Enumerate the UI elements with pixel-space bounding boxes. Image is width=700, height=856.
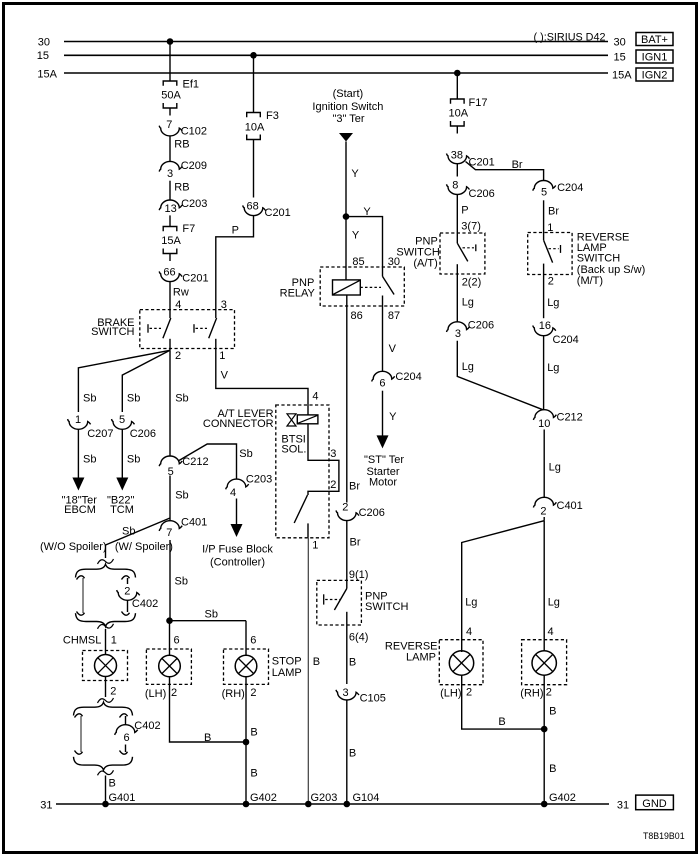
- svg-text:C212: C212: [182, 456, 208, 468]
- svg-text:15: 15: [37, 50, 49, 62]
- svg-text:Lg: Lg: [462, 361, 474, 373]
- svg-text:1: 1: [75, 414, 81, 426]
- node on bus 15A: [454, 70, 461, 77]
- lamp reverse LH: [439, 640, 483, 685]
- svg-text:IGN2: IGN2: [642, 70, 668, 82]
- svg-text:50A: 50A: [161, 90, 181, 102]
- connector C204 pin 5: [533, 180, 556, 190]
- wire B to G401: [105, 776, 107, 805]
- svg-text:86: 86: [351, 310, 363, 322]
- svg-text:2: 2: [466, 687, 472, 699]
- connector C203 pin 13: [159, 200, 182, 210]
- lamp CHMSL: [83, 651, 128, 681]
- wire to RH reverse: [543, 521, 545, 652]
- svg-text:7: 7: [166, 119, 172, 131]
- wire B RH stop down: [245, 677, 247, 742]
- svg-text:68: 68: [246, 200, 258, 212]
- svg-text:GND: GND: [642, 798, 667, 810]
- svg-text:Lg: Lg: [465, 597, 477, 609]
- wire break squiggle 2: [98, 624, 114, 629]
- svg-text:EBCM: EBCM: [64, 504, 96, 516]
- hook left top 1: [77, 576, 85, 580]
- svg-text:RB: RB: [174, 139, 189, 151]
- ground G401: [102, 801, 109, 808]
- terminal box BAT+: [636, 33, 673, 46]
- svg-text:Ef1: Ef1: [183, 79, 200, 91]
- wire V brake pin1 to ATL pin4: [216, 349, 308, 406]
- svg-text:4: 4: [466, 626, 472, 638]
- svg-text:C204: C204: [557, 182, 583, 194]
- svg-text:15A: 15A: [37, 69, 57, 81]
- wire bus15A to F17: [456, 73, 458, 99]
- svg-text:B: B: [204, 732, 211, 744]
- svg-text:B: B: [313, 656, 320, 668]
- lamp stop RH: [224, 649, 269, 684]
- svg-text:2: 2: [330, 479, 336, 491]
- svg-text:BAT+: BAT+: [641, 34, 668, 46]
- svg-text:Ignition Switch: Ignition Switch: [312, 101, 383, 113]
- PNP switch A/T contact: [456, 233, 458, 243]
- svg-text:C402: C402: [134, 720, 160, 732]
- wire BTSI jog pins 3-2: [308, 424, 339, 495]
- wire Lg C212-10 to C401-2: [543, 430, 545, 498]
- svg-text:F7: F7: [182, 223, 195, 235]
- wire C401-7 down to node: [169, 540, 171, 621]
- wire right branch bottom 1: [127, 600, 129, 612]
- svg-text:(M/T): (M/T): [577, 275, 603, 287]
- svg-text:C401: C401: [557, 500, 583, 512]
- svg-text:15A: 15A: [612, 70, 632, 82]
- svg-text:(W/O Spoiler): (W/O Spoiler): [40, 541, 107, 553]
- svg-text:C204: C204: [395, 371, 421, 383]
- wire Sb C206 to TCM: [121, 429, 123, 478]
- svg-text:1: 1: [111, 635, 117, 647]
- svg-text:RB: RB: [174, 181, 189, 193]
- svg-text:31: 31: [40, 799, 52, 811]
- brake switch left contact: [169, 310, 171, 318]
- connector C206 pin 3: [447, 322, 470, 332]
- svg-text:G203: G203: [311, 792, 338, 804]
- svg-text:3: 3: [342, 687, 348, 699]
- svg-text:C401: C401: [181, 516, 207, 528]
- wire bus15 to F3: [253, 55, 255, 112]
- wire to CHMSL: [105, 629, 107, 655]
- wire Sb spoiler diagonal: [106, 518, 171, 545]
- wire Sb branch to C203: [179, 444, 237, 479]
- svg-text:C206: C206: [359, 507, 385, 519]
- ground G104: [344, 801, 351, 808]
- svg-text:6: 6: [250, 635, 256, 647]
- connector C401 pin 2: [533, 497, 556, 507]
- svg-text:3: 3: [167, 168, 173, 180]
- BTSI switch blade: [294, 495, 307, 523]
- svg-text:G104: G104: [353, 792, 380, 804]
- wire Rw to brake switch: [169, 282, 171, 310]
- connector C212 pin 5: [159, 456, 182, 466]
- svg-text:Br: Br: [349, 481, 360, 493]
- svg-text:SOL.: SOL.: [281, 443, 306, 455]
- connector C402 pin 6: [115, 725, 138, 735]
- wire Y ignition down: [345, 142, 347, 217]
- svg-text:B: B: [349, 657, 356, 669]
- wire B LH stop to junction: [170, 677, 247, 742]
- svg-text:"ST" Ter: "ST" Ter: [364, 454, 404, 466]
- BTSI valve symbol: [287, 414, 296, 420]
- svg-text:C212: C212: [557, 412, 583, 424]
- svg-text:(RH): (RH): [520, 687, 543, 699]
- svg-text:Rw: Rw: [173, 286, 189, 298]
- svg-text:CONNECTOR: CONNECTOR: [203, 418, 274, 430]
- wire node to LH stop lamp: [169, 621, 171, 656]
- svg-text:C402: C402: [132, 598, 158, 610]
- svg-text:6: 6: [174, 635, 180, 647]
- svg-text:Br: Br: [512, 159, 523, 171]
- svg-text:7: 7: [166, 527, 172, 539]
- bus 15A wire: [64, 72, 608, 74]
- fuse F17: [451, 99, 465, 104]
- svg-text:C206: C206: [468, 319, 494, 331]
- svg-text:C206: C206: [469, 188, 495, 200]
- wire B junction to G402: [543, 729, 545, 804]
- wire B BTSI to G203: [307, 538, 309, 804]
- wire Sb to RH stop lamp: [170, 620, 247, 622]
- lamp stop LH: [146, 649, 191, 684]
- wire into brace 1: [105, 545, 107, 558]
- wire C201-38 to C206-8: [456, 164, 458, 177]
- wire relay86 down: [346, 295, 348, 503]
- node on bus 15: [250, 52, 257, 59]
- relay switch: [382, 267, 384, 276]
- hook right bottom 2: [120, 751, 128, 755]
- svg-text:LAMP: LAMP: [406, 652, 436, 664]
- svg-text:10: 10: [538, 418, 550, 430]
- BTSI switch contact: [307, 523, 309, 537]
- svg-text:(W/ Spoiler): (W/ Spoiler): [115, 541, 173, 553]
- brake switch right actuator: [193, 324, 195, 333]
- svg-text:Sb: Sb: [127, 392, 140, 404]
- svg-text:Y: Y: [351, 168, 359, 180]
- node stop lamp B junction: [243, 739, 250, 746]
- svg-text:2: 2: [124, 586, 130, 598]
- hook right bottom 1: [122, 612, 130, 616]
- svg-text:15A: 15A: [161, 235, 181, 247]
- relay coil-switch link: [360, 286, 381, 288]
- svg-text:G402: G402: [250, 792, 277, 804]
- connector C212 pin 10: [533, 410, 556, 420]
- svg-text:C105: C105: [360, 692, 386, 704]
- node stop lamp branch: [166, 617, 173, 624]
- wire P C201-68 to brake switch pin 3: [216, 216, 254, 310]
- bus 30 wire: [64, 41, 608, 43]
- svg-text:2(2): 2(2): [462, 277, 482, 289]
- brake switch right contact: [215, 310, 217, 318]
- svg-text:13: 13: [164, 203, 176, 215]
- BTSI solenoid coil: [307, 405, 309, 415]
- svg-text:C102: C102: [181, 126, 207, 138]
- svg-text:Sb: Sb: [83, 392, 96, 404]
- svg-text:V: V: [389, 343, 397, 355]
- svg-text:4: 4: [230, 487, 236, 499]
- wire Lg PNP A/T to C206-3: [456, 274, 458, 322]
- node on bus 30: [167, 38, 174, 45]
- bus 15 wire: [64, 54, 608, 56]
- svg-text:(RH): (RH): [222, 688, 245, 700]
- svg-text:87: 87: [388, 310, 400, 322]
- svg-text:C203: C203: [246, 473, 272, 485]
- svg-text:2: 2: [250, 687, 256, 699]
- svg-text:LAMP: LAMP: [272, 667, 302, 679]
- svg-text:B: B: [250, 727, 257, 739]
- PNP switch M/T contact: [346, 580, 348, 588]
- svg-text:C206: C206: [130, 428, 156, 440]
- svg-text:30: 30: [614, 36, 626, 48]
- wire brake pin2 to C212: [169, 350, 171, 456]
- svg-text:B: B: [549, 763, 556, 775]
- svg-text:2: 2: [342, 502, 348, 514]
- brace top 2: [74, 702, 133, 715]
- svg-text:Y: Y: [352, 230, 360, 242]
- wire Y node to relay 85: [345, 217, 347, 280]
- svg-text:Lg: Lg: [462, 296, 474, 308]
- wire RB C209-C203: [169, 181, 171, 200]
- svg-text:Motor: Motor: [369, 477, 397, 489]
- svg-text:4: 4: [312, 391, 318, 403]
- wire left branch 1: [82, 578, 84, 613]
- svg-text:(LH): (LH): [440, 687, 461, 699]
- svg-text:C203: C203: [181, 198, 207, 210]
- PNP switch A/T box: [440, 233, 485, 274]
- PNP switch A/T actuator: [475, 244, 477, 251]
- arrow to starter motor: [377, 435, 389, 448]
- A/T lever connector box: [276, 405, 329, 538]
- svg-text:V: V: [221, 369, 229, 381]
- svg-text:CHMSL: CHMSL: [63, 634, 102, 646]
- svg-text:5: 5: [119, 414, 125, 426]
- wire P C206-8 to PNP A/T: [456, 195, 458, 234]
- wire B C105 to G104: [346, 700, 348, 804]
- svg-text:Sb: Sb: [239, 448, 252, 460]
- svg-text:C209: C209: [181, 160, 207, 172]
- connector C209 pin 3: [159, 161, 182, 171]
- svg-text:5: 5: [541, 186, 547, 198]
- svg-text:G402: G402: [549, 792, 576, 804]
- connector C203 pin 4: [226, 479, 249, 489]
- svg-text:Lg: Lg: [548, 597, 560, 609]
- svg-text:STOP: STOP: [272, 655, 302, 667]
- wire right branch top 1: [127, 578, 129, 584]
- brake switch left actuator: [147, 324, 149, 333]
- node ignition branch: [343, 213, 350, 220]
- wire right branch bottom 2: [125, 745, 127, 753]
- reverse lamp switch box: [528, 233, 572, 275]
- wire F3 to C201-68: [253, 147, 255, 198]
- fuse F3: [247, 113, 261, 118]
- svg-text:6(4): 6(4): [349, 632, 369, 644]
- wire V relay87 to C204: [382, 306, 384, 371]
- svg-text:9(1): 9(1): [349, 569, 369, 581]
- hook left top 2: [75, 714, 83, 718]
- hook right top 2: [120, 714, 128, 718]
- svg-text:Sb: Sb: [175, 489, 188, 501]
- svg-text:2: 2: [540, 506, 546, 518]
- wire RB C102-C209: [169, 136, 171, 162]
- hook left bottom 1: [77, 612, 85, 616]
- lamp reverse RH: [522, 640, 567, 685]
- svg-text:1: 1: [219, 350, 225, 362]
- svg-text:3(7): 3(7): [461, 220, 481, 232]
- svg-text:Sb: Sb: [175, 576, 188, 588]
- svg-text:SWITCH: SWITCH: [577, 253, 620, 265]
- relay coil: [333, 280, 361, 295]
- svg-text:SWITCH: SWITCH: [91, 326, 134, 338]
- ignition feed arrow: [339, 133, 353, 142]
- svg-text:C207: C207: [87, 428, 113, 440]
- wire Y branch to relay 30: [346, 217, 383, 267]
- wire Br C206-2 to PNP switch: [346, 521, 348, 581]
- wire B PNP to C105: [346, 625, 348, 684]
- svg-text:IGN1: IGN1: [642, 52, 668, 64]
- reverse lamp switch contact: [543, 233, 545, 241]
- svg-text:F3: F3: [266, 110, 279, 122]
- svg-text:16: 16: [539, 320, 551, 332]
- wire Br C204-5 to revsw: [543, 200, 545, 232]
- svg-text:Sb: Sb: [127, 454, 140, 466]
- bus 31 wire: [56, 803, 609, 805]
- wire break squiggle 1: [98, 559, 114, 564]
- svg-text:F17: F17: [469, 97, 488, 109]
- svg-text:Sb: Sb: [83, 454, 96, 466]
- hook right top 1: [122, 576, 130, 580]
- svg-text:Sb: Sb: [122, 526, 135, 538]
- brace bottom 1: [76, 613, 136, 626]
- svg-text:B: B: [498, 716, 505, 728]
- svg-text:Y: Y: [389, 411, 397, 423]
- terminal box GND: [636, 795, 674, 810]
- wire Sb C207 to EBCM: [77, 429, 79, 478]
- wire Lg C206-3 diagonal to C212-10: [457, 341, 543, 410]
- arrow to EBCM: [72, 478, 84, 491]
- svg-text:Lg: Lg: [549, 462, 561, 474]
- relay U1 box: [320, 267, 404, 306]
- wire CHMSL to brace 2: [105, 677, 107, 698]
- svg-text:1: 1: [312, 540, 318, 552]
- PNP switch M/T actuator: [323, 594, 325, 604]
- svg-text:3: 3: [330, 448, 336, 460]
- svg-text:2: 2: [548, 275, 554, 287]
- terminal box IGN1: [636, 50, 673, 63]
- svg-text:(Controller): (Controller): [210, 557, 265, 569]
- PNP switch M/T box: [317, 580, 362, 625]
- wire left branch 2: [80, 716, 82, 752]
- svg-text:I/P Fuse Block: I/P Fuse Block: [202, 543, 273, 555]
- svg-text:B: B: [250, 767, 257, 779]
- svg-text:38: 38: [451, 150, 463, 162]
- svg-text:10A: 10A: [245, 122, 265, 134]
- svg-text:2: 2: [546, 687, 552, 699]
- wire Sb C212 to C401: [169, 476, 171, 521]
- svg-text:T8B19B01: T8B19B01: [643, 831, 685, 841]
- ground G203: [305, 801, 312, 808]
- wire break squiggle 4: [98, 770, 114, 775]
- wire B junction to G402: [245, 742, 247, 804]
- svg-text:6: 6: [379, 378, 385, 390]
- arrow to TCM: [116, 478, 128, 491]
- svg-text:SWITCH: SWITCH: [396, 246, 439, 258]
- wire branch to C206: [122, 350, 170, 412]
- fuse Ef1: [163, 81, 177, 86]
- svg-text:31: 31: [617, 799, 629, 811]
- svg-text:Br: Br: [548, 205, 559, 217]
- svg-text:Lg: Lg: [547, 297, 559, 309]
- svg-text:4: 4: [548, 626, 554, 638]
- wire C203 to F7: [169, 215, 171, 226]
- svg-text:P: P: [461, 205, 468, 217]
- svg-text:(LH): (LH): [145, 688, 166, 700]
- wire break squiggle 3: [98, 698, 114, 703]
- wire B RH reverse down: [543, 675, 545, 729]
- wire Y to starter arrow: [382, 391, 384, 436]
- ground G402 left: [243, 801, 250, 808]
- svg-text:Y: Y: [363, 206, 371, 218]
- wire RH drop: [245, 621, 247, 656]
- svg-text:2: 2: [110, 685, 116, 697]
- connector C204 pin 6: [372, 371, 395, 381]
- hook left bottom 2: [75, 751, 83, 755]
- node reverse B junction: [541, 726, 548, 733]
- svg-text:B: B: [349, 748, 356, 760]
- svg-text:(A/T): (A/T): [413, 258, 437, 270]
- svg-text:10A: 10A: [449, 107, 469, 119]
- svg-text:3: 3: [455, 328, 461, 340]
- wire C401-2 stub: [543, 517, 545, 521]
- wire B LH reverse to junction: [462, 675, 545, 729]
- svg-text:30: 30: [38, 36, 50, 48]
- brace top 1: [76, 564, 136, 577]
- wire Br branch to C204-5: [466, 162, 544, 181]
- reverse lamp switch actuator: [560, 245, 562, 253]
- svg-text:66: 66: [163, 267, 175, 279]
- svg-text:8: 8: [452, 180, 458, 192]
- svg-text:C201: C201: [182, 272, 208, 284]
- svg-text:85: 85: [352, 256, 364, 268]
- svg-text:B: B: [109, 778, 116, 790]
- svg-text:C201: C201: [265, 207, 291, 219]
- svg-text:SWITCH: SWITCH: [365, 601, 408, 613]
- svg-text:6: 6: [123, 732, 129, 744]
- svg-text:Sb: Sb: [205, 609, 218, 621]
- svg-text:Sb: Sb: [175, 392, 188, 404]
- fuse F7: [163, 227, 177, 232]
- brace bottom 2: [74, 757, 133, 770]
- svg-text:RELAY: RELAY: [280, 287, 316, 299]
- wire Lg revsw to C204-16: [543, 275, 545, 319]
- wire bus30 to Ef1: [169, 42, 171, 81]
- svg-text:TCM: TCM: [110, 504, 134, 516]
- svg-text:15: 15: [614, 52, 626, 64]
- brake switch box: [140, 310, 235, 349]
- svg-text:B: B: [549, 705, 556, 717]
- svg-text:G401: G401: [109, 792, 136, 804]
- connector C401 pin 7: [159, 521, 182, 531]
- ground G402 right: [541, 801, 548, 808]
- arrow to I/P fuse block: [236, 499, 238, 525]
- wire diagonal to LH reverse: [462, 521, 545, 652]
- svg-text:2: 2: [175, 350, 181, 362]
- wire Lg C204-16 to C212-10: [543, 336, 545, 410]
- wire right branch top 2: [125, 716, 127, 725]
- terminal box IGN2: [636, 68, 673, 81]
- wire branch to C207: [78, 350, 170, 412]
